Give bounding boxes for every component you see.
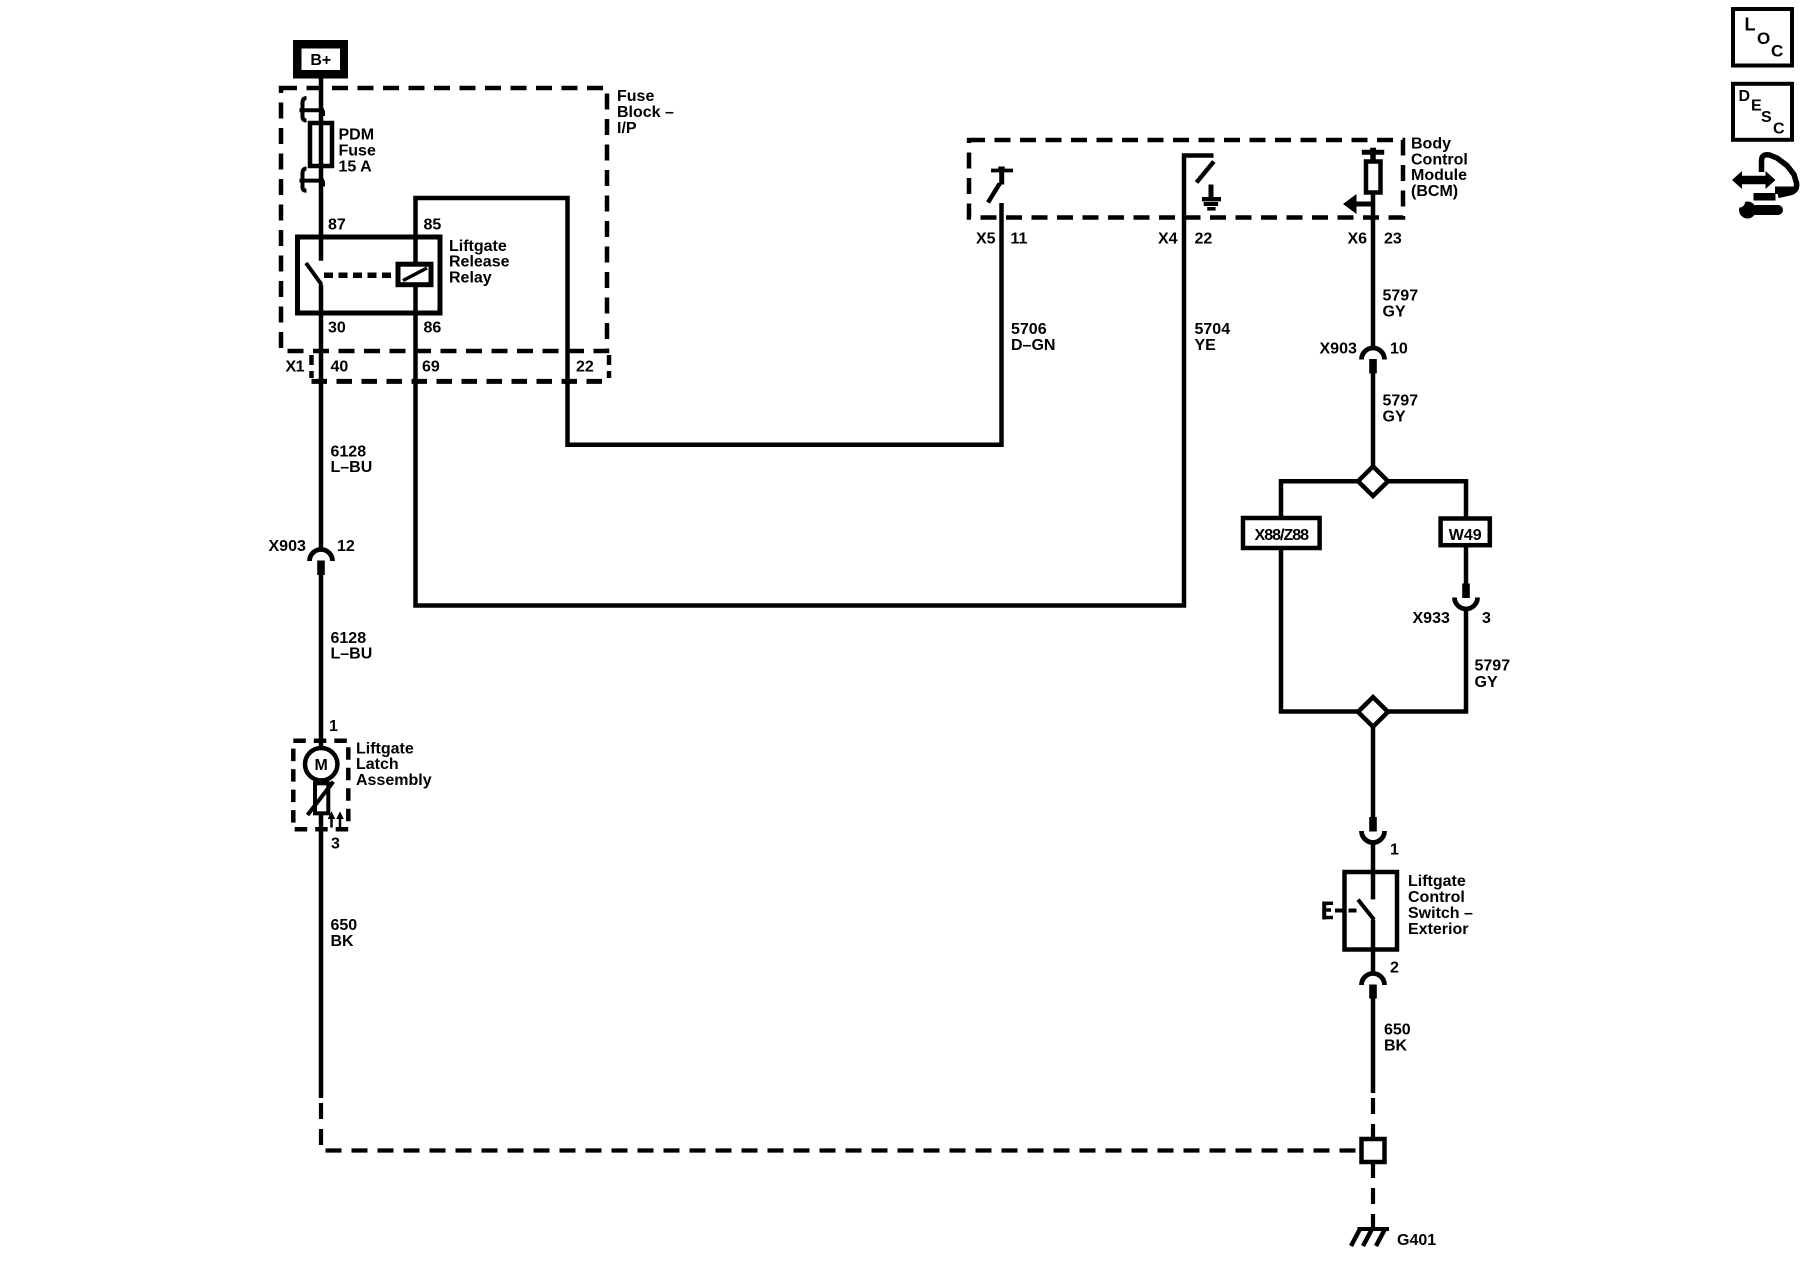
svg-text:YE: YE [1195, 337, 1217, 354]
inline connector switch pin 2 [1362, 960, 1400, 999]
svg-text:Liftgate: Liftgate [356, 741, 414, 758]
relay pin 30 wire down through X1 pin 40 to X903 [319, 285, 324, 551]
latch actuation arrows [329, 813, 344, 828]
svg-text:X903: X903 [269, 538, 306, 555]
svg-text:Fuse: Fuse [617, 88, 654, 105]
relay coil [398, 264, 431, 285]
svg-text:X4: X4 [1158, 231, 1178, 248]
wire X903-12 to latch pin 1 [319, 575, 324, 749]
svg-text:15 A: 15 A [339, 159, 373, 176]
svg-text:5706: 5706 [1011, 321, 1047, 338]
svg-text:30: 30 [328, 320, 346, 337]
fuse PDM Fuse 15 A [310, 123, 332, 166]
liftgate latch assembly dashed box [293, 741, 348, 829]
icon diagnostic arrows and wrench [1732, 155, 1797, 219]
BCM pin labels X5 11 X4 22 X6 23 [976, 231, 1402, 248]
fuse clip top [300, 98, 325, 121]
connector X1 row (pins 40 69 22) [286, 355, 610, 381]
svg-text:Latch: Latch [356, 756, 399, 773]
svg-text:O: O [1757, 29, 1770, 48]
svg-text:5797: 5797 [1475, 658, 1511, 675]
wire dashed to splice square [1371, 1098, 1375, 1139]
svg-text:X88/Z88: X88/Z88 [1255, 527, 1310, 544]
svg-text:5797: 5797 [1383, 288, 1419, 305]
svg-text:C: C [1771, 42, 1783, 61]
svg-text:L: L [1745, 15, 1756, 35]
svg-text:Liftgate: Liftgate [1408, 873, 1466, 890]
wire X933 to bottom splice [1388, 609, 1466, 712]
svg-text:Exterior: Exterior [1408, 921, 1468, 938]
svg-text:650: 650 [1384, 1022, 1411, 1039]
svg-text:87: 87 [328, 217, 346, 234]
svg-text:22: 22 [1195, 231, 1213, 248]
BCM internal driver at X5 [988, 167, 1013, 203]
svg-text:Switch –: Switch – [1408, 905, 1473, 922]
wire splice to X88/Z88 branch [1281, 481, 1358, 518]
svg-text:D: D [1739, 88, 1751, 105]
wire switch pin 2 down [1371, 950, 1376, 975]
wire splice to W49 branch [1388, 481, 1466, 518]
fuse block I/P dashed box [281, 88, 607, 351]
svg-text:L–BU: L–BU [331, 646, 373, 663]
splice diamond bottom [1358, 697, 1388, 727]
svg-text:Control: Control [1408, 889, 1465, 906]
svg-text:C: C [1773, 121, 1785, 138]
icon DESC [1733, 84, 1792, 140]
wire label 5704 YE [1195, 321, 1231, 354]
BCM internal voltage supply and resistor at X6 [1362, 148, 1384, 193]
svg-text:BK: BK [331, 933, 355, 950]
svg-text:12: 12 [337, 538, 355, 555]
inline connector switch pin 1 [1362, 817, 1400, 859]
switch internal contacts [1358, 872, 1374, 950]
svg-text:W49: W49 [1449, 527, 1482, 544]
wire 650 BK right solid [1371, 998, 1376, 1093]
svg-text:Assembly: Assembly [356, 772, 432, 789]
inline connector X903 pin 10 [1320, 341, 1408, 374]
icon LOC [1733, 9, 1792, 66]
svg-text:PDM: PDM [339, 127, 375, 144]
svg-text:23: 23 [1384, 231, 1402, 248]
latch thermal element [308, 780, 334, 815]
relay coil linkage dashed [324, 273, 398, 279]
svg-text:G401: G401 [1397, 1232, 1436, 1249]
svg-text:Fuse: Fuse [339, 143, 376, 160]
BCM internal ground switch at X4 [1197, 162, 1222, 209]
wire label 6128 L-BU lower [331, 630, 373, 663]
svg-text:5797: 5797 [1383, 393, 1419, 410]
fuse clip bottom [300, 169, 325, 191]
inline connector X903 pin 12 [269, 538, 355, 575]
svg-text:(BCM): (BCM) [1411, 183, 1458, 200]
wire label 5797 GY upper [1383, 288, 1419, 321]
svg-text:3: 3 [331, 836, 340, 853]
svg-text:2: 2 [1390, 960, 1399, 977]
label PDM Fuse 15 A [339, 127, 376, 176]
svg-text:1: 1 [329, 718, 338, 735]
svg-text:BK: BK [1384, 1038, 1408, 1055]
svg-text:650: 650 [331, 917, 358, 934]
svg-text:Control: Control [1411, 151, 1468, 168]
relay Liftgate Release Relay box [298, 237, 441, 313]
relay pin labels 87 85 30 86 [328, 217, 441, 337]
svg-text:X933: X933 [1413, 610, 1450, 627]
ring terminal W49 [1441, 519, 1490, 546]
svg-text:5704: 5704 [1195, 321, 1231, 338]
wire connector to switch box [1371, 842, 1376, 872]
splice square junction [1362, 1139, 1385, 1162]
wire latch pin 3 down (650 BK) [319, 813, 324, 1098]
wire label 5797 GY mid [1383, 393, 1419, 426]
svg-text:Body: Body [1411, 136, 1451, 153]
inline connector X933 pin 3 [1413, 584, 1492, 628]
svg-text:X6: X6 [1348, 231, 1368, 248]
motor M [305, 748, 337, 780]
BCM output arrow at X6 [1343, 194, 1373, 214]
relay pin 85 wire via X1 pin 22 to BCM X5-11 (ckt 5706) [416, 198, 1002, 445]
svg-text:B+: B+ [310, 52, 331, 69]
wire bottom splice to switch pin 1 [1371, 727, 1376, 818]
svg-text:GY: GY [1383, 304, 1406, 321]
svg-text:M: M [315, 757, 328, 774]
svg-text:L–BU: L–BU [331, 459, 373, 476]
wire B+ to relay pin 87 through PDM fuse [319, 79, 324, 261]
svg-text:6128: 6128 [331, 630, 367, 647]
svg-text:69: 69 [422, 359, 440, 376]
label Liftgate Latch Assembly [356, 741, 432, 790]
svg-text:X1: X1 [286, 359, 305, 376]
svg-text:Relay: Relay [449, 269, 492, 286]
wire label 6128 L-BU upper [331, 444, 373, 477]
svg-text:I/P: I/P [617, 120, 637, 137]
battery feed B+ terminal [293, 40, 348, 79]
wire label 650 BK right [1384, 1022, 1411, 1055]
BCM dashed box [969, 140, 1403, 218]
wire X88/Z88 to bottom splice [1281, 548, 1358, 712]
svg-text:Module: Module [1411, 167, 1467, 184]
switch Liftgate Control Switch Exterior box [1345, 872, 1398, 950]
svg-text:1: 1 [1390, 842, 1399, 859]
label Body Control Module (BCM) [1411, 136, 1468, 200]
svg-text:10: 10 [1390, 341, 1408, 358]
dashed ground wire left to splice square [321, 1103, 1362, 1151]
label Liftgate Control Switch - Exterior [1408, 873, 1473, 938]
relay switch blade (pins 87-30) [306, 263, 322, 285]
connector X88/Z88 [1243, 518, 1320, 548]
svg-text:86: 86 [424, 320, 442, 337]
svg-text:22: 22 [576, 359, 594, 376]
svg-text:Block –: Block – [617, 104, 674, 121]
svg-text:D–GN: D–GN [1011, 337, 1055, 354]
label Liftgate Release Relay [449, 238, 510, 286]
label Fuse Block - I/P [617, 88, 674, 137]
svg-text:11: 11 [1011, 231, 1028, 248]
ground G401 [1351, 1229, 1436, 1249]
svg-text:40: 40 [331, 359, 349, 376]
wire BCM X6-23 down to connector X903 (ckt 5797) [1371, 193, 1376, 349]
switch actuator E linkage [1324, 902, 1357, 920]
wire label 5797 GY lower [1475, 658, 1511, 692]
svg-text:Liftgate: Liftgate [449, 238, 507, 255]
svg-text:X903: X903 [1320, 341, 1357, 358]
svg-text:S: S [1761, 109, 1772, 126]
relay pin 86 wire via X1 pin 69 to BCM X4-22 (ckt 5704) [416, 156, 1214, 606]
svg-text:X5: X5 [976, 231, 996, 248]
wire X903-10 to top splice [1371, 373, 1376, 467]
splice diamond top [1358, 466, 1388, 496]
svg-text:85: 85 [424, 217, 442, 234]
wire W49 to connector X933 [1464, 545, 1469, 584]
wire dashed square to ground [1371, 1162, 1375, 1228]
svg-text:GY: GY [1475, 674, 1498, 691]
svg-text:6128: 6128 [331, 444, 367, 461]
wire label 650 BK left [331, 917, 358, 950]
wire label 5706 D-GN [1011, 321, 1055, 354]
svg-text:GY: GY [1383, 409, 1406, 426]
svg-text:Release: Release [449, 254, 510, 271]
svg-text:3: 3 [1482, 610, 1491, 627]
